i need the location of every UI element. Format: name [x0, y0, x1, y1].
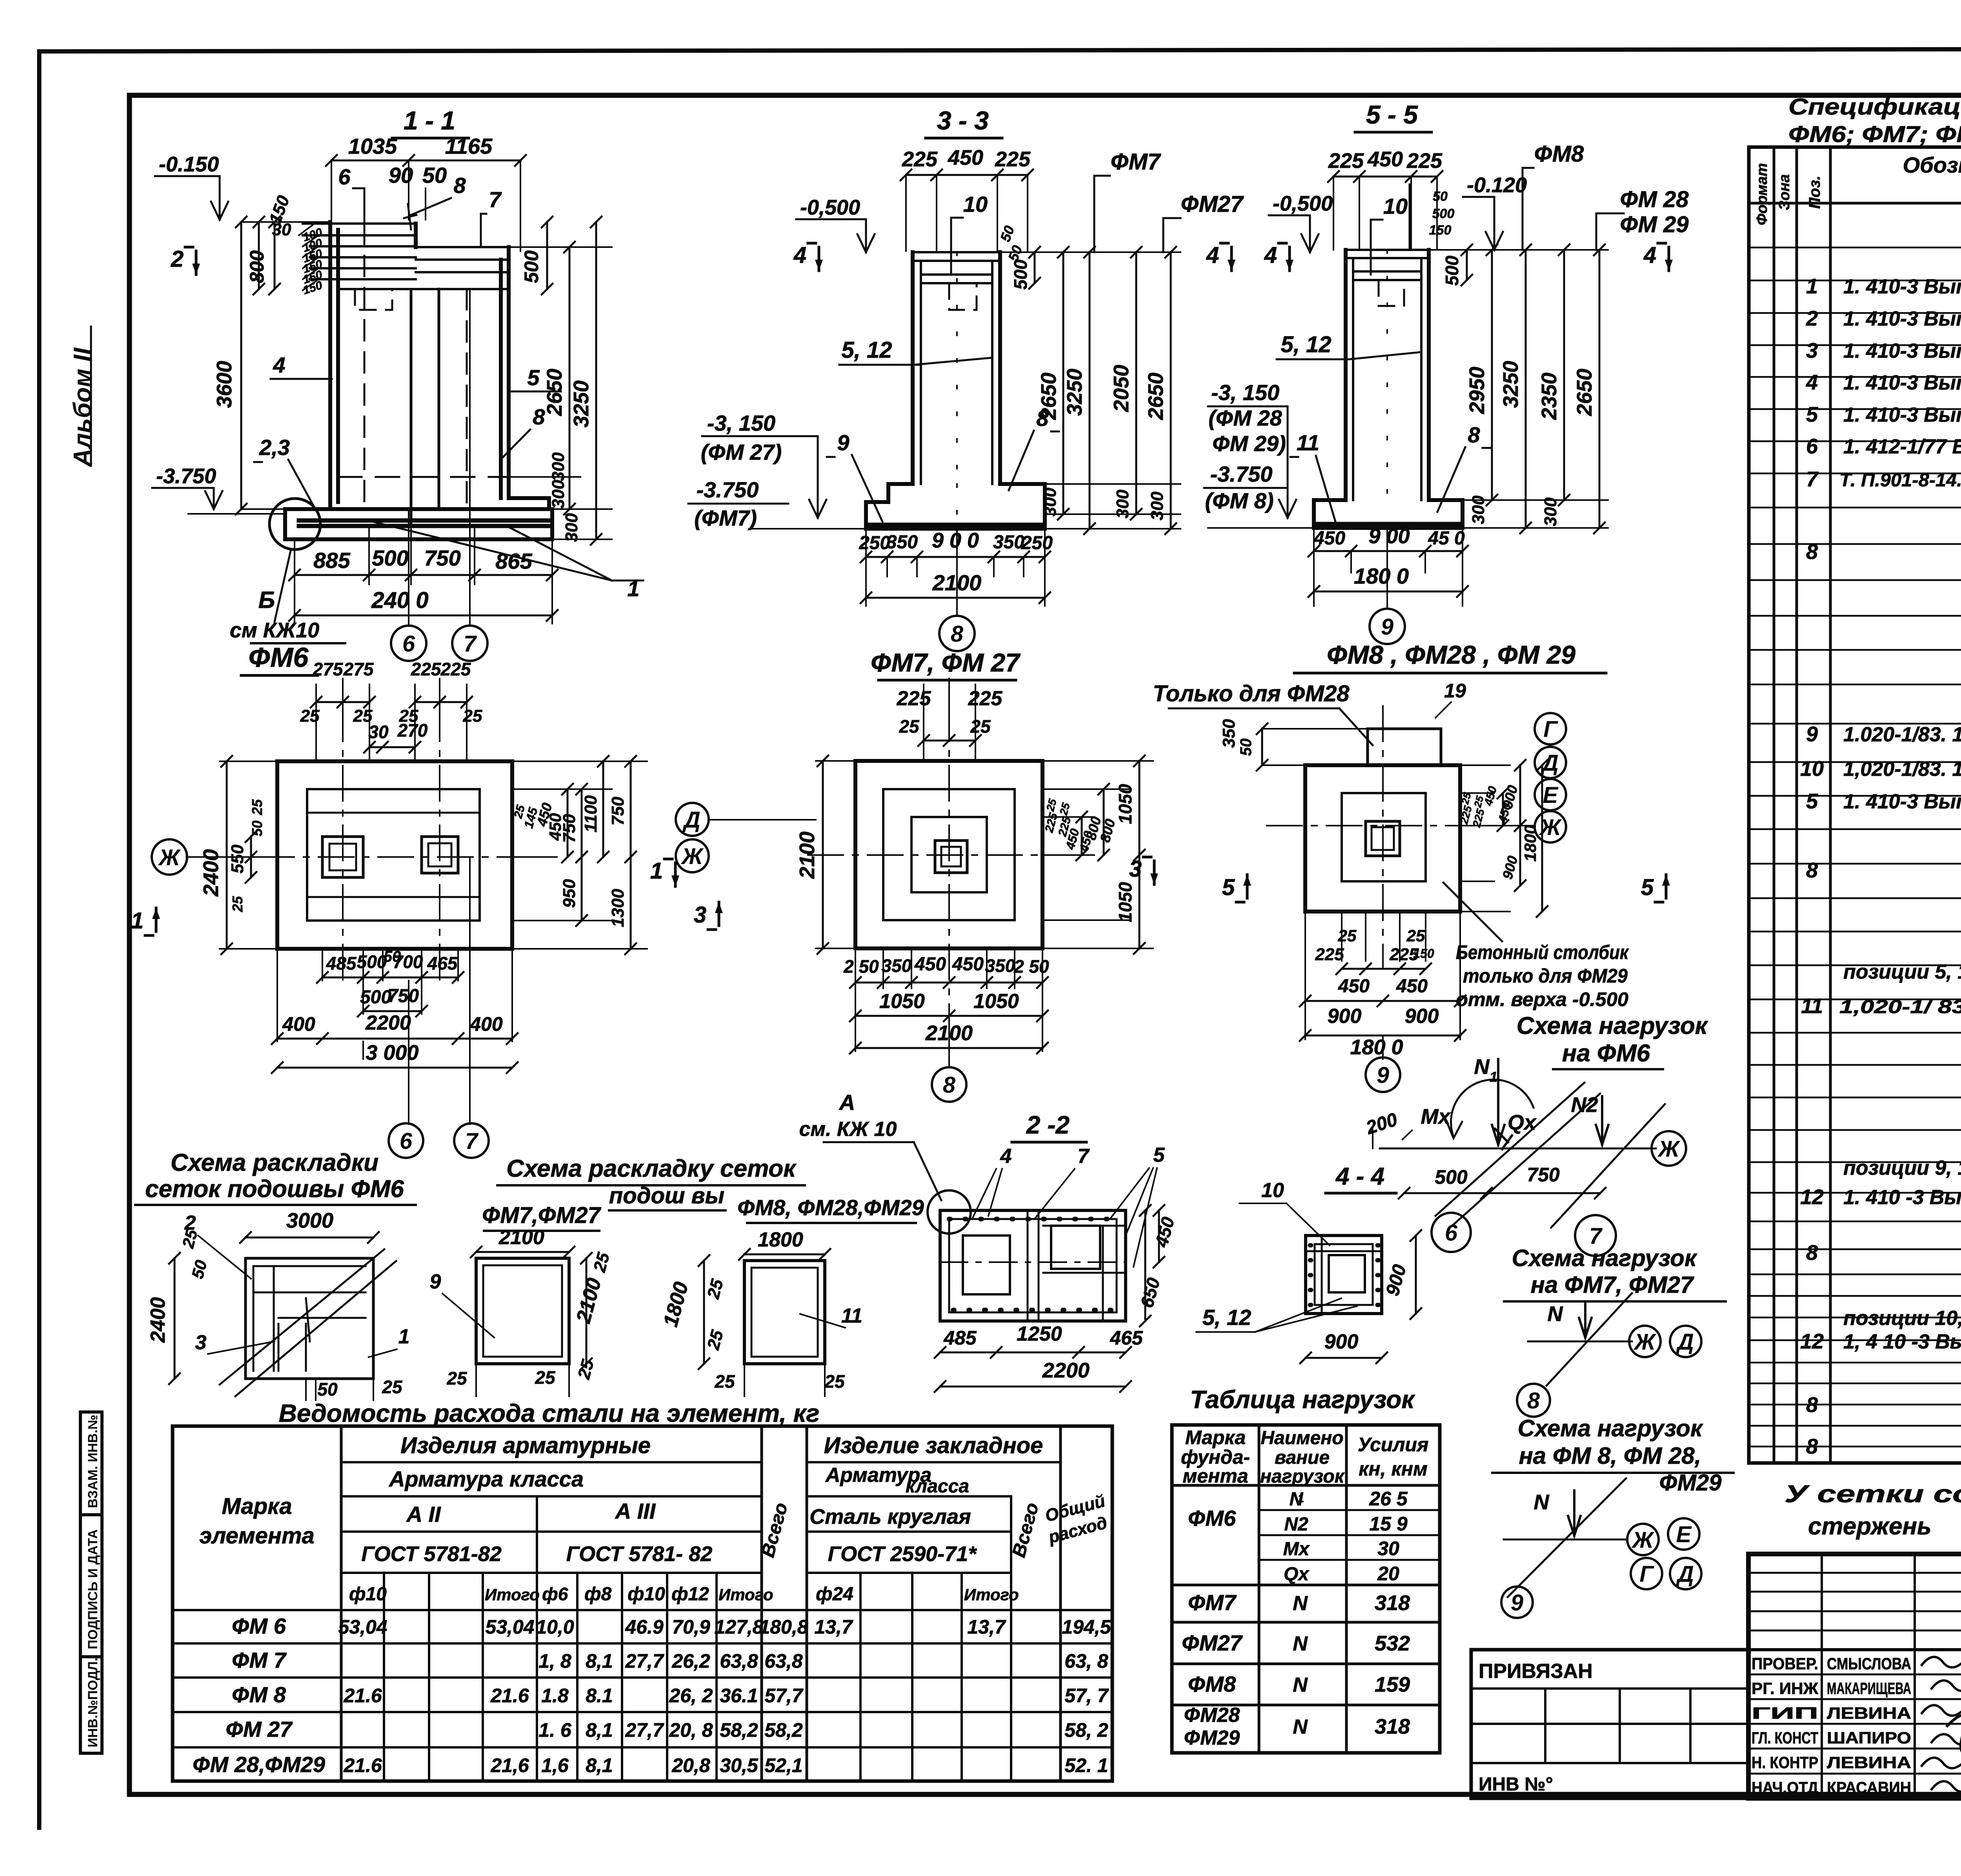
svg-text:500: 500 [372, 546, 408, 570]
svg-text:90: 90 [389, 163, 413, 187]
svg-text:ф12: ф12 [671, 1584, 709, 1605]
plan FM7 left circles D Zh [676, 803, 816, 872]
svg-text:194,5: 194,5 [1062, 1616, 1111, 1638]
svg-text:Ж: Ж [1631, 1527, 1655, 1553]
title block left grid [1748, 1554, 1961, 1798]
svg-text:2200: 2200 [365, 1012, 411, 1034]
svg-text:150: 150 [1429, 223, 1452, 238]
svg-text:кн, кнм: кн, кнм [1359, 1458, 1428, 1480]
svg-text:950: 950 [560, 879, 579, 908]
note betonny stolbik [1443, 883, 1629, 1010]
svg-text:Е: Е [1676, 1522, 1692, 1547]
svg-text:30: 30 [1377, 1538, 1399, 1559]
plan FM7 section marker 3 right [1129, 856, 1158, 884]
leader FM7 [1094, 149, 1161, 252]
svg-text:мента: мента [1182, 1465, 1248, 1487]
svg-text:13,7: 13,7 [814, 1616, 853, 1638]
svg-text:Марка: Марка [222, 1494, 292, 1519]
plan FM7 FM27 title [871, 648, 1021, 680]
svg-text:МАКАРИЩЕВА: МАКАРИЩЕВА [1827, 1679, 1911, 1698]
svg-text:1, 8: 1, 8 [538, 1650, 571, 1672]
plan FM6 outer footing rect [277, 761, 512, 949]
level -0.120 [1463, 173, 1527, 250]
svg-text:25: 25 [1338, 926, 1357, 945]
svg-text:6: 6 [1445, 1220, 1458, 1246]
label 9 with leader [827, 430, 882, 522]
svg-text:9: 9 [430, 1270, 441, 1293]
svg-text:25: 25 [714, 1371, 735, 1392]
svg-text:Ж: Ж [158, 845, 181, 870]
svg-text:225: 225 [897, 687, 931, 710]
label 5 [509, 365, 561, 391]
svg-text:нагрузок: нагрузок [1260, 1466, 1345, 1487]
svg-text:РГ. ИНЖ: РГ. ИНЖ [1752, 1679, 1819, 1698]
svg-text:ИНВ.№ПОДЛ.: ИНВ.№ПОДЛ. [85, 1658, 100, 1747]
svg-text:1: 1 [627, 576, 639, 601]
5-5 footing [1314, 500, 1463, 528]
section marker 2 (left) [171, 246, 200, 275]
svg-text:ФМ8 , ФМ28 , ФМ 29: ФМ8 , ФМ28 , ФМ 29 [1327, 640, 1575, 669]
scheme title FM7 FM27 / FM8 FM28 FM29 [482, 1155, 924, 1231]
svg-text:Усилия: Усилия [1358, 1434, 1429, 1456]
svg-text:Схема раскладку сеток: Схема раскладку сеток [506, 1155, 797, 1182]
3-3 right dim chains [997, 224, 1181, 534]
svg-text:ФМ29: ФМ29 [1184, 1727, 1240, 1749]
svg-text:1: 1 [1490, 1069, 1497, 1085]
svg-text:1: 1 [1806, 275, 1818, 298]
svg-text:4: 4 [1643, 242, 1656, 268]
svg-text:20: 20 [1377, 1563, 1399, 1585]
svg-text:70,9: 70,9 [672, 1616, 710, 1638]
svg-text:Обозначение: Обозначение [1903, 153, 1961, 177]
svg-text:N: N [1474, 1055, 1490, 1079]
svg-text:ф10: ф10 [349, 1584, 387, 1605]
svg-text:Таблица нагрузок: Таблица нагрузок [1190, 1385, 1415, 1414]
label 19 [1435, 680, 1466, 718]
svg-text:350: 350 [985, 955, 1015, 976]
svg-text:8.1: 8.1 [586, 1685, 613, 1707]
svg-text:3 000: 3 000 [366, 1041, 418, 1064]
svg-text:1035: 1035 [348, 134, 397, 158]
svg-text:5 - 5: 5 - 5 [1366, 100, 1418, 129]
label 6 with leader [338, 164, 364, 222]
svg-text:ФМ27: ФМ27 [1181, 191, 1244, 217]
svg-text:225: 225 [1315, 945, 1344, 964]
section 1-1 wall and slab outline [299, 222, 549, 526]
svg-text:-3.750: -3.750 [697, 477, 759, 502]
svg-text:58, 2: 58, 2 [1064, 1719, 1108, 1741]
svg-text:Бетонный столбик: Бетонный столбик [1456, 941, 1629, 963]
svg-text:4: 4 [1806, 371, 1818, 394]
svg-text:25: 25 [463, 706, 482, 726]
svg-text:ГИП: ГИП [1752, 1704, 1818, 1722]
svg-text:8: 8 [1806, 540, 1818, 564]
svg-text:500: 500 [520, 250, 542, 283]
svg-text:57,7: 57,7 [764, 1685, 804, 1707]
scheme FM8 square [659, 1228, 862, 1396]
section marker 4 left (3-3) [793, 242, 823, 271]
svg-text:2100: 2100 [498, 1226, 544, 1249]
leader FM8 [1523, 141, 1584, 250]
svg-text:21.6: 21.6 [343, 1754, 382, 1776]
svg-text:25: 25 [535, 1367, 556, 1388]
section marker 4 right (5-5) [1643, 242, 1673, 271]
svg-text:2650: 2650 [1573, 369, 1596, 416]
svg-text:1: 1 [398, 1325, 410, 1348]
svg-text:25: 25 [382, 1377, 403, 1397]
spec table rows content [1800, 209, 1961, 1458]
svg-text:750: 750 [608, 797, 628, 826]
svg-text:25: 25 [229, 896, 246, 912]
svg-text:13,7: 13,7 [967, 1616, 1006, 1638]
plan FM7 axes [808, 706, 1082, 1004]
plan FM6 left column square [322, 837, 363, 877]
svg-text:4: 4 [273, 353, 285, 377]
svg-text:ФМ28: ФМ28 [1184, 1704, 1240, 1727]
svg-text:750: 750 [387, 986, 419, 1006]
svg-text:6: 6 [1806, 435, 1818, 458]
svg-text:на ФМ6: на ФМ6 [1562, 1040, 1650, 1067]
svg-text:Марка: Марка [1185, 1427, 1246, 1448]
svg-text:ф6: ф6 [542, 1584, 568, 1604]
svg-text:Схема раскладки: Схема раскладки [171, 1149, 378, 1176]
svg-text:5: 5 [1641, 875, 1654, 900]
svg-text:-0.150: -0.150 [159, 153, 219, 176]
label 10 with leader [951, 192, 988, 275]
svg-text:стержень: стержень [1808, 1513, 1932, 1540]
svg-text:-0.120: -0.120 [1467, 173, 1527, 197]
svg-text:8: 8 [1527, 1388, 1540, 1414]
svg-text:ФМ6; ФМ7; ФМ 8, ФМ 27, ФМ 28,: ФМ6; ФМ7; ФМ 8, ФМ 27, ФМ 28, ФМ 29 [1788, 122, 1961, 147]
svg-text:Поз.: Поз. [1806, 176, 1823, 209]
svg-text:500: 500 [1432, 206, 1455, 221]
load table grid [1172, 1425, 1440, 1753]
svg-text:5: 5 [1806, 403, 1818, 426]
svg-text:1800: 1800 [1521, 825, 1539, 861]
svg-text:2350: 2350 [1537, 373, 1561, 420]
spec table title [1788, 94, 1961, 147]
svg-text:300: 300 [1113, 489, 1132, 519]
svg-text:1: 1 [131, 908, 144, 933]
svg-text:25: 25 [446, 1368, 468, 1388]
svg-text:Итого: Итого [964, 1585, 1019, 1604]
svg-text:26, 2: 26, 2 [669, 1685, 713, 1707]
svg-text:9: 9 [1381, 614, 1393, 640]
svg-text:225: 225 [968, 687, 1003, 710]
svg-text:300: 300 [549, 480, 568, 509]
plan FM8 axes [1267, 706, 1534, 969]
svg-text:КРАСАВИН: КРАСАВИН [1827, 1778, 1911, 1797]
svg-text:12: 12 [1800, 1330, 1824, 1353]
svg-text:9: 9 [1806, 722, 1818, 746]
svg-text:Е: Е [1543, 782, 1559, 808]
steel table header texts [199, 1433, 1109, 1605]
svg-text:5: 5 [1806, 790, 1818, 813]
plan FM7 axis circle 8 below [932, 1004, 966, 1102]
svg-text:12: 12 [1800, 1185, 1824, 1209]
level -3.750 (FM7) [688, 477, 866, 530]
svg-text:Зона: Зона [1776, 174, 1793, 210]
plan FM7 bottom dims [843, 948, 1049, 1054]
svg-text:450: 450 [948, 146, 983, 169]
labels 90 50 8 7 [389, 163, 502, 247]
plan FM6 top dim chains [300, 659, 482, 761]
plan FM6 left dims 2400 550 [199, 756, 277, 954]
svg-text:1: 1 [650, 858, 663, 884]
svg-text:50: 50 [249, 821, 265, 836]
svg-text:Mx: Mx [1421, 1105, 1451, 1128]
svg-text:30,5: 30,5 [720, 1754, 759, 1776]
svg-text:7: 7 [464, 631, 477, 657]
svg-text:Альбом II: Альбом II [68, 347, 96, 468]
plan FM8 left small dims 350 50 [1219, 719, 1368, 771]
svg-text:N2: N2 [1571, 1093, 1598, 1117]
svg-text:1. 410-3 Вып. 1: 1. 410-3 Вып. 1 [1843, 275, 1961, 298]
svg-text:450: 450 [914, 954, 946, 975]
svg-text:225: 225 [1328, 149, 1364, 173]
svg-text:-0,500: -0,500 [1273, 192, 1333, 215]
section 4-4 body [1306, 1236, 1382, 1314]
svg-text:2650: 2650 [1144, 373, 1168, 420]
svg-text:25: 25 [970, 716, 991, 737]
svg-text:225: 225 [440, 659, 471, 679]
svg-text:19: 19 [1444, 680, 1466, 702]
plan FM6 left axis circle Zh [152, 839, 259, 875]
svg-text:N: N [1293, 1592, 1308, 1615]
svg-text:-3, 150: -3, 150 [1211, 380, 1279, 405]
svg-text:У сетки со знаком * снять: У сетки со знаком * снять верхний [1785, 1481, 1961, 1508]
scheme title FM6 [135, 1149, 416, 1205]
svg-text:позиции 9, 10 см.: позиции 9, 10 см. [1843, 1157, 1961, 1179]
svg-text:900: 900 [1328, 1005, 1362, 1028]
svg-text:450: 450 [952, 954, 984, 975]
svg-text:52,1: 52,1 [764, 1754, 802, 1776]
svg-text:8,1: 8,1 [586, 1650, 613, 1672]
svg-text:532: 532 [1375, 1632, 1410, 1655]
plan FM6 section marker 1 right [650, 858, 679, 886]
svg-text:21.6: 21.6 [343, 1685, 382, 1707]
svg-text:250: 250 [859, 533, 890, 553]
detail circle B on footing [230, 499, 345, 643]
svg-text:3250: 3250 [1063, 369, 1086, 416]
svg-text:150: 150 [1413, 946, 1434, 961]
svg-text:см. КЖ 10: см. КЖ 10 [799, 1118, 897, 1141]
svg-text:1100: 1100 [581, 795, 600, 832]
svg-text:15 9: 15 9 [1369, 1513, 1408, 1535]
svg-text:Д: Д [1675, 1329, 1694, 1355]
svg-text:элемента: элемента [199, 1523, 315, 1548]
svg-text:465: 465 [1110, 1327, 1143, 1349]
svg-text:ФМ 28,ФМ29: ФМ 28,ФМ29 [193, 1752, 325, 1777]
svg-text:ШАПИРО: ШАПИРО [1827, 1729, 1911, 1747]
load schema FM6 circles 6 7 [1432, 1213, 1616, 1256]
svg-text:ФМ 6: ФМ 6 [232, 1614, 286, 1638]
section 2-2 dims [935, 1205, 1179, 1392]
small dims 50 500 150 right of column top [1429, 189, 1472, 286]
svg-text:8: 8 [951, 621, 964, 647]
label 8 with leader (3-3) [1009, 406, 1059, 490]
svg-text:5, 12: 5, 12 [1202, 1305, 1252, 1330]
svg-text:Qx: Qx [1284, 1564, 1310, 1585]
svg-text:63,8: 63,8 [764, 1650, 803, 1672]
svg-text:2: 2 [171, 246, 184, 272]
left margin stamp strip [80, 1412, 102, 1753]
svg-text:1.8: 1.8 [541, 1685, 569, 1707]
svg-text:1. 412-1/77 Вып. 3: 1. 412-1/77 Вып. 3 [1843, 435, 1961, 458]
svg-text:ФМ6: ФМ6 [1188, 1506, 1236, 1530]
svg-text:6: 6 [400, 1128, 413, 1154]
svg-text:800: 800 [246, 250, 268, 283]
axis circle 9 under 5-5 [1370, 528, 1405, 644]
scheme FM6 dims [147, 1209, 409, 1400]
svg-text:ГОСТ 5781- 82: ГОСТ 5781- 82 [566, 1542, 713, 1566]
svg-text:ПОДПИСЬ И ДАТА: ПОДПИСЬ И ДАТА [85, 1529, 100, 1649]
svg-text:225: 225 [902, 147, 938, 171]
label 5,12 (3-3) [839, 337, 992, 365]
svg-text:-0,500: -0,500 [800, 196, 860, 219]
svg-text:Изделия арматурные: Изделия арматурные [400, 1433, 651, 1458]
load table rows [1182, 1488, 1410, 1749]
svg-text:8: 8 [1806, 1435, 1818, 1458]
svg-text:9 0 0: 9 0 0 [932, 529, 979, 552]
level mark -0.150 [155, 153, 228, 220]
svg-text:Ж: Ж [1657, 1136, 1681, 1162]
svg-text:А II: А II [406, 1502, 441, 1527]
svg-text:2100: 2100 [795, 832, 819, 879]
svg-text:9 00: 9 00 [1368, 524, 1410, 548]
section 2-2 labels 4 7 5 [973, 1144, 1165, 1267]
svg-text:4: 4 [1000, 1145, 1012, 1168]
svg-text:11: 11 [1801, 994, 1823, 1018]
svg-text:Изделие закладное: Изделие закладное [824, 1433, 1043, 1458]
svg-text:класса: класса [906, 1476, 969, 1497]
svg-text:25: 25 [899, 716, 920, 737]
svg-text:225: 225 [995, 147, 1031, 171]
svg-text:900: 900 [1405, 1005, 1439, 1028]
plan FM8 outer square with FM28 extension [1305, 729, 1460, 912]
svg-text:127,8: 127,8 [714, 1616, 763, 1638]
svg-text:ПРОВЕР.: ПРОВЕР. [1752, 1654, 1818, 1673]
svg-text:Арматура класса: Арматура класса [388, 1467, 584, 1491]
svg-text:1.020-1/83. 1-10,2,0-03: 1.020-1/83. 1-10,2,0-03 [1843, 723, 1961, 746]
svg-text:8: 8 [1468, 422, 1480, 447]
svg-text:885: 885 [313, 548, 350, 573]
svg-text:ФМ7: ФМ7 [1111, 149, 1161, 175]
svg-text:50: 50 [1237, 739, 1255, 756]
svg-text:10,0: 10,0 [536, 1616, 574, 1638]
svg-text:1050: 1050 [1115, 882, 1135, 922]
svg-text:11: 11 [841, 1305, 862, 1327]
bottom dims 885 500 750 865 2400 [289, 528, 558, 624]
svg-text:9: 9 [1511, 1590, 1523, 1616]
svg-text:1, 4 10 -3 Вып. 1: 1, 4 10 -3 Вып. 1 [1843, 1330, 1961, 1353]
axis circles 6 and 7 under section 1-1 [391, 289, 488, 661]
plan FM6 title [241, 642, 318, 675]
svg-text:500: 500 [357, 952, 387, 972]
svg-text:8: 8 [453, 173, 466, 198]
svg-text:4: 4 [1264, 242, 1277, 268]
label 10 (5-5) [1371, 194, 1408, 275]
label 5,12 (5-5) [1277, 332, 1420, 359]
section 1-1 top dimension chain 1035/1165 [326, 134, 526, 251]
svg-text:Г: Г [1639, 1561, 1654, 1587]
plan FM8 section marker 5 right [1641, 875, 1670, 902]
svg-text:2400: 2400 [199, 849, 223, 897]
load schema FM7 diagram [1528, 1293, 1701, 1386]
svg-text:11: 11 [1297, 430, 1319, 455]
svg-text:485: 485 [326, 953, 357, 973]
svg-text:-3, 150: -3, 150 [707, 411, 775, 435]
svg-text:N: N [1293, 1632, 1308, 1655]
5-5 column outline [1346, 184, 1429, 500]
svg-text:Только для ФМ28: Только для ФМ28 [1153, 681, 1350, 706]
svg-text:3: 3 [1806, 339, 1818, 362]
privyazan block [1471, 1650, 1748, 1798]
svg-text:1165: 1165 [445, 134, 493, 158]
load schema FM6 title [1517, 1012, 1708, 1069]
svg-text:2650: 2650 [543, 369, 566, 416]
plan FM8 FM28 FM29 title [1294, 640, 1606, 673]
svg-text:1 - 1: 1 - 1 [404, 106, 455, 135]
plan FM7 squares [855, 761, 1042, 948]
svg-text:6: 6 [338, 164, 351, 189]
svg-text:225: 225 [411, 659, 442, 679]
plan FM8 inner squares [1342, 793, 1426, 881]
svg-text:1800: 1800 [758, 1228, 803, 1251]
svg-text:ЛЕВИНА: ЛЕВИНА [1827, 1753, 1911, 1772]
svg-text:Ж: Ж [680, 844, 704, 869]
svg-text:21,6: 21,6 [490, 1754, 529, 1776]
label A smKZh10 [799, 1090, 971, 1234]
svg-text:N: N [1293, 1674, 1308, 1696]
svg-text:700: 700 [393, 952, 423, 972]
svg-text:7: 7 [465, 1128, 479, 1154]
svg-text:300: 300 [562, 513, 581, 542]
svg-text:ВЗАМ. ИНВ.№: ВЗАМ. ИНВ.№ [85, 1415, 100, 1508]
svg-text:N: N [1534, 1490, 1550, 1514]
svg-text:1,020-1/ 83. 1-10, 1,0-02: 1,020-1/ 83. 1-10, 1,0-02 [1839, 997, 1961, 1017]
svg-text:10: 10 [1261, 1179, 1284, 1202]
plan FM8 right axis circles G D E Zh [1460, 713, 1566, 842]
album label [68, 326, 96, 468]
svg-text:26 5: 26 5 [1369, 1488, 1408, 1510]
plan FM6 bottom dim chains [272, 948, 518, 1073]
svg-text:Г: Г [1543, 717, 1558, 742]
section marker 4 left (5-5) [1264, 242, 1293, 271]
svg-text:250: 250 [1021, 533, 1053, 553]
svg-text:3: 3 [694, 902, 706, 928]
svg-text:2: 2 [184, 1212, 196, 1234]
svg-text:-3.750: -3.750 [156, 464, 216, 488]
svg-text:10: 10 [1383, 194, 1408, 218]
svg-text:450: 450 [1367, 147, 1403, 171]
svg-text:см КЖ10: см КЖ10 [230, 619, 319, 642]
svg-text:ФМ6: ФМ6 [249, 642, 309, 673]
svg-text:350: 350 [1219, 719, 1239, 748]
svg-text:Ведомость расхода стали на: Ведомость расхода стали на элемент, кг [279, 1399, 820, 1427]
label 4 [271, 353, 332, 379]
svg-text:27,7: 27,7 [625, 1650, 664, 1672]
svg-text:300: 300 [1041, 488, 1060, 517]
svg-text:25: 25 [1406, 926, 1425, 945]
svg-text:подош вы: подош вы [609, 1183, 724, 1208]
svg-text:180,8: 180,8 [759, 1616, 808, 1638]
svg-text:350: 350 [882, 955, 912, 976]
svg-text:20, 8: 20, 8 [669, 1719, 713, 1741]
svg-text:180 0: 180 0 [1350, 1035, 1403, 1059]
svg-text:(ФМ 28: (ФМ 28 [1208, 406, 1282, 430]
svg-text:ФМ8, ФМ28,ФМ29: ФМ8, ФМ28,ФМ29 [737, 1195, 924, 1220]
